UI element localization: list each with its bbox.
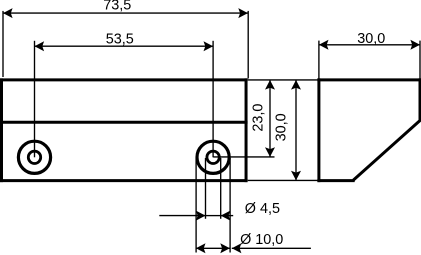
dimension 73,5: left extension line xyxy=(2,11,4,77)
dimension Ø10,0: dimension line between extensions xyxy=(196,247,230,249)
svg-text:23,0: 23,0 xyxy=(251,104,267,132)
dimension 53,5: left arrow xyxy=(35,41,45,51)
dimension 23,0: bottom arrow xyxy=(265,147,275,157)
dimension 30,0 top: left extension line xyxy=(318,41,320,79)
svg-text:53,5: 53,5 xyxy=(106,31,134,47)
dimension Ø10,0: leader tail line xyxy=(232,247,311,249)
dimension 53,5: right extension line (hole H2 centre) xyxy=(212,41,214,158)
hole H1 inner circle (Ø4,5) xyxy=(28,151,40,163)
extension line: top edge extended between views xyxy=(248,79,318,81)
dimension 73,5: right extension line xyxy=(247,11,249,79)
dimension 53,5: left extension line (hole H1 centre) xyxy=(34,41,36,158)
side view outline: right edge and chamfer diagonal xyxy=(353,78,420,180)
front view outline: right edge xyxy=(245,78,248,182)
side view outline: top edge xyxy=(317,78,421,81)
hole H2 outer circle (counterbore Ø10) xyxy=(197,141,229,173)
extension line: bottom edge extended between views xyxy=(248,179,318,181)
dimension 73,5: left arrow xyxy=(3,8,13,18)
extension line: hole H2 outer left xyxy=(195,158,197,253)
dimension 30,0 height: top arrow xyxy=(291,80,301,90)
dimension 30,0 top: left arrow xyxy=(319,40,329,50)
front view: middle horizontal edge xyxy=(0,121,248,124)
dimension 30,0 (height): dimension line xyxy=(295,80,297,180)
dimension Ø4,5: left leader line xyxy=(159,215,205,217)
svg-text:Ø 10,0: Ø 10,0 xyxy=(240,232,283,248)
dimension Ø10,0: leader arrow (pointing left) xyxy=(232,243,242,253)
svg-text:30,0: 30,0 xyxy=(273,113,289,141)
svg-text:73,5: 73,5 xyxy=(103,0,131,14)
hole H2 inner circle (Ø4,5) xyxy=(207,151,219,163)
side view outline: left edge xyxy=(317,78,320,182)
svg-text:30,0: 30,0 xyxy=(357,31,385,47)
dimension 23,0: dimension line xyxy=(269,80,271,157)
dimension 30,0 (side view width): dimension line xyxy=(319,44,420,46)
dimension 30,0 top: right arrow xyxy=(410,40,420,50)
extension line: hole H2 inner left xyxy=(205,158,207,219)
dimension Ø10,0: left arrow (pointing left) xyxy=(196,243,206,253)
dimension 30,0 height: bottom arrow xyxy=(291,171,301,181)
dimension 73,5: dimension line xyxy=(3,12,248,14)
hole H1 outer circle (counterbore Ø10) xyxy=(18,141,50,173)
front view outline: bottom edge xyxy=(0,179,248,182)
extension line: hole H2 centreline extended right xyxy=(213,156,274,158)
side view outline: bottom edge xyxy=(317,179,354,182)
dimension Ø4,5: line between extensions xyxy=(206,215,221,217)
dimension Ø4,5: right arrow (pointing left) xyxy=(221,211,231,221)
dimension 30,0 top: right extension line xyxy=(419,41,421,79)
svg-text:Ø 4,5: Ø 4,5 xyxy=(245,201,280,217)
dimension Ø4,5: right leader line xyxy=(221,215,234,217)
front view outline: top edge xyxy=(0,78,248,81)
extension line: hole H2 outer right xyxy=(229,158,231,253)
dimension 73,5: right arrow xyxy=(238,8,248,18)
dimension 23,0: top arrow xyxy=(265,80,275,90)
dimension 53,5: right arrow xyxy=(204,41,214,51)
front view outline: left edge xyxy=(0,78,3,182)
extension line: hole H2 inner right xyxy=(220,158,222,219)
dimension Ø10,0: right arrow (pointing right) xyxy=(220,243,230,253)
dimension 53,5: dimension line xyxy=(35,45,214,47)
dimension Ø4,5: left arrow (pointing right) xyxy=(196,211,206,221)
